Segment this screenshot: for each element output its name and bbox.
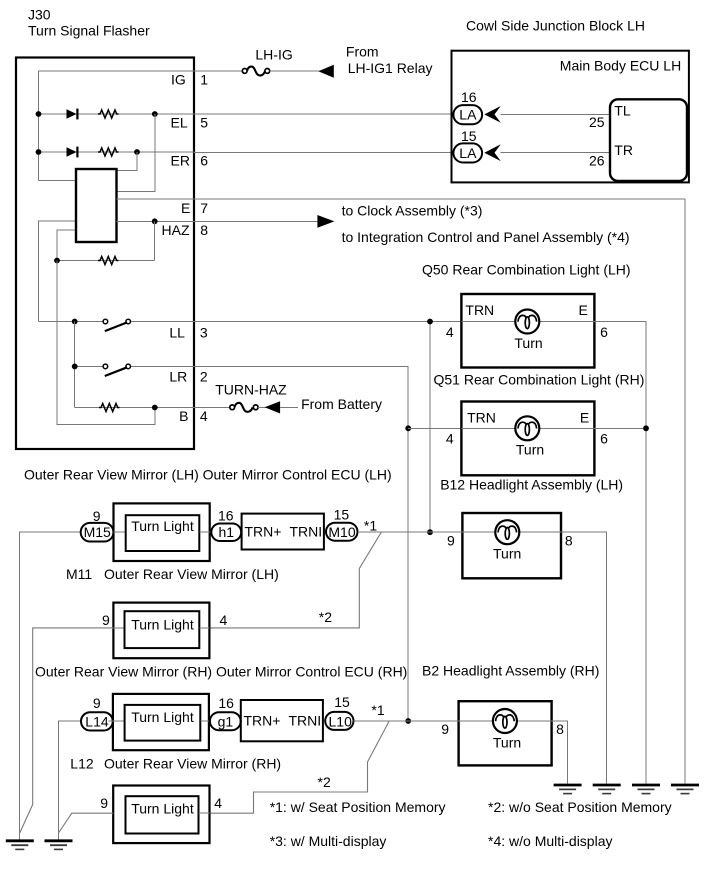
svg-text:6: 6: [600, 324, 608, 340]
svg-text:From Battery: From Battery: [301, 396, 382, 412]
node HAZ: [152, 218, 158, 224]
ground G6: [671, 785, 699, 794]
node EL-right: [152, 111, 158, 117]
connector arrow 16: [484, 106, 501, 123]
svg-text:LH-IG: LH-IG: [255, 46, 292, 62]
svg-text:to Integration Control and Pan: to Integration Control and Panel Assembl…: [342, 229, 630, 245]
node bus2 bottom: [427, 529, 433, 535]
svg-text:From: From: [346, 44, 379, 60]
connector oval L14: [81, 712, 113, 730]
wire Q51 internal: [461, 427, 594, 429]
resistor R2: [98, 148, 119, 156]
wire LR row right part: [131, 365, 195, 367]
svg-text:8: 8: [200, 222, 208, 238]
wire diagonal *1 to *2 bottom: [210, 721, 389, 813]
wire E row: [117, 199, 686, 784]
svg-text:*2: *2: [319, 609, 332, 625]
wire LR external bus1: [194, 366, 408, 721]
wire HAZ to resistor: [154, 221, 156, 260]
component box Outer Rear View Mirror RH: [113, 603, 209, 659]
SECTION: notes: [270, 799, 672, 849]
wire HAZ row: [117, 220, 195, 222]
component box J30 Turn Signal Flasher: [16, 58, 194, 450]
resistor R1: [98, 110, 119, 118]
svg-text:*2: *2: [318, 774, 331, 790]
svg-text:Main Body ECU LH: Main Body ECU LH: [560, 57, 681, 73]
svg-text:Turn: Turn: [493, 546, 521, 562]
svg-text:8: 8: [556, 721, 564, 737]
svg-text:2: 2: [200, 368, 208, 384]
svg-text:4: 4: [200, 408, 208, 424]
svg-text:LR: LR: [169, 368, 187, 384]
lamp B12 Turn: [495, 520, 519, 544]
svg-text:LL: LL: [169, 325, 185, 341]
wire RH mirror 9 to ground1: [20, 628, 114, 833]
wire ER row: [39, 151, 195, 153]
wire ER to IC: [117, 152, 138, 171]
svg-text:*4: w/o Multi-display: *4: w/o Multi-display: [488, 833, 613, 849]
svg-text:Outer Rear View Mirror (RH) Ou: Outer Rear View Mirror (RH) Outer Mirror…: [35, 664, 407, 680]
arrow to clock/integration: [317, 215, 334, 228]
wire M15 to turn light: [114, 531, 126, 533]
node resistor-left: [54, 258, 60, 264]
wire IC left pin1: [39, 180, 77, 182]
ground G4: [593, 785, 621, 794]
wire LA16 to ECU: [501, 113, 611, 115]
svg-text:TRN: TRN: [467, 409, 496, 425]
wire IC left pin2 to LL: [39, 221, 77, 321]
node bus1 Q51: [405, 425, 411, 431]
svg-text:Turn Light: Turn Light: [131, 617, 194, 633]
connector arrow 15: [484, 144, 501, 161]
component box Cowl Side Junction Block: [452, 51, 689, 183]
svg-text:TRN+: TRN+: [245, 524, 282, 540]
svg-text:M15: M15: [84, 524, 111, 540]
svg-text:TL: TL: [614, 102, 631, 118]
connector oval h1: [211, 524, 241, 542]
wire IG internal: [39, 71, 195, 181]
node bus1 B2: [405, 718, 411, 724]
svg-text:L14: L14: [85, 713, 109, 729]
component box TRN+ TRNI L12: [241, 700, 323, 741]
svg-text:Outer Rear View Mirror (LH): Outer Rear View Mirror (LH): [104, 566, 279, 582]
svg-text:B2 Headlight Assembly (RH): B2 Headlight Assembly (RH): [422, 663, 599, 679]
node LL: [72, 319, 78, 325]
svg-text:9: 9: [93, 508, 101, 524]
svg-text:Turn: Turn: [493, 734, 521, 750]
svg-text:Cowl Side Junction Block LH: Cowl Side Junction Block LH: [466, 17, 645, 33]
svg-text:Turn Light: Turn Light: [131, 709, 194, 725]
diode D2: [67, 147, 78, 158]
svg-text:*1: w/ Seat Position Memory: *1: w/ Seat Position Memory: [270, 799, 446, 815]
wire M10 to B12: [358, 531, 463, 533]
arrow from LH-IG1 relay: [318, 65, 334, 78]
svg-text:Turn: Turn: [514, 335, 542, 351]
svg-text:J30: J30: [28, 6, 51, 22]
svg-text:5: 5: [200, 115, 208, 131]
svg-text:g1: g1: [218, 713, 234, 729]
component box Turn Light L12: [125, 705, 201, 741]
wire M15 to ground1: [20, 532, 81, 839]
component box Turn Light bottom: [126, 796, 199, 833]
svg-text:7: 7: [200, 200, 208, 216]
svg-text:9: 9: [102, 612, 110, 628]
svg-text:4: 4: [214, 795, 222, 811]
svg-text:TRNI: TRNI: [289, 713, 322, 729]
svg-text:16: 16: [461, 89, 477, 105]
wire IC left pin3: [57, 230, 76, 261]
svg-text:25: 25: [589, 114, 605, 130]
wire turn light RH pin4: [199, 627, 209, 629]
wire diagonal *1 to *2 LH: [209, 532, 381, 628]
svg-text:15: 15: [334, 507, 350, 523]
wire EL to IC: [117, 114, 155, 191]
svg-text:E: E: [579, 302, 588, 318]
svg-text:*1: *1: [364, 517, 377, 533]
component box Outer Rear View Mirror L12: [113, 694, 209, 750]
wire B to TURN-HAZ fuse: [194, 406, 230, 408]
SECTION: cowl: [194, 17, 689, 413]
component box Main Body ECU LH: [610, 99, 687, 181]
switch SW1 LL: [103, 319, 130, 331]
node EL-left: [36, 111, 42, 117]
wire Q50 E to busC: [594, 322, 646, 784]
node busC Q51: [643, 425, 649, 431]
component box Turn Light M11: [126, 515, 200, 551]
svg-text:Q50 Rear Combination Light (LH: Q50 Rear Combination Light (LH): [422, 262, 631, 278]
svg-text:9: 9: [100, 795, 108, 811]
node ER-right: [134, 149, 140, 155]
wire bottom mirror 9 to ground2: [59, 813, 114, 833]
component box Q51: [461, 402, 594, 476]
svg-text:Q51 Rear Combination Light (RH: Q51 Rear Combination Light (RH): [434, 372, 645, 388]
wire B2 internal: [459, 720, 552, 722]
wire turn light bottom pin4: [199, 812, 211, 814]
svg-text:TURN-HAZ: TURN-HAZ: [215, 381, 287, 397]
svg-text:8: 8: [565, 532, 573, 548]
svg-text:16: 16: [218, 507, 234, 523]
wire L14 to ground2: [59, 721, 82, 839]
svg-text:IG: IG: [171, 72, 186, 88]
svg-text:TRNI: TRNI: [290, 524, 323, 540]
IC box U1: [76, 169, 117, 242]
wire LL row: [39, 321, 104, 323]
component box Turn Light RH: [125, 611, 200, 648]
svg-text:9: 9: [447, 532, 455, 548]
svg-text:TRN: TRN: [465, 302, 494, 318]
svg-text:*3: w/ Multi-display: *3: w/ Multi-display: [270, 833, 387, 849]
wire fuse to arrow: [270, 70, 320, 72]
wire arrow to label: [280, 406, 298, 408]
wire B loop: [57, 261, 155, 425]
svg-text:*2: w/o Seat Position Memory: *2: w/o Seat Position Memory: [488, 799, 672, 815]
svg-text:15: 15: [461, 128, 477, 144]
ground G3: [554, 785, 582, 794]
component box B12: [462, 513, 561, 578]
switch SW2 LR: [103, 364, 130, 376]
diode D1: [67, 109, 78, 120]
svg-text:Outer Rear View Mirror (RH): Outer Rear View Mirror (RH): [104, 756, 281, 772]
connector oval g1: [210, 712, 241, 730]
wire B2 E to busA: [552, 721, 568, 784]
resistor R3: [98, 257, 119, 265]
component box bottom turn light outer: [113, 786, 209, 844]
svg-text:26: 26: [589, 153, 605, 169]
svg-text:15: 15: [334, 694, 350, 710]
svg-text:M10: M10: [328, 524, 355, 540]
wire LR row: [75, 365, 103, 367]
wire resistor row: [57, 260, 155, 262]
lamp Q51 Turn: [515, 416, 539, 440]
wire fuse to battery arrow: [258, 406, 266, 408]
svg-text:E: E: [181, 200, 190, 216]
wire B12 internal: [462, 531, 561, 533]
wire EL row: [39, 113, 195, 115]
connector oval M15: [81, 523, 114, 542]
connector oval LA 15: [453, 143, 482, 162]
svg-text:TRN+: TRN+: [244, 713, 281, 729]
wire RH mirror internal: [113, 627, 124, 629]
node B: [152, 405, 158, 411]
node bus2 top: [427, 319, 433, 325]
svg-text:M11: M11: [66, 566, 92, 582]
svg-text:4: 4: [446, 324, 454, 340]
wire B12 E to busB: [561, 532, 607, 784]
wire IG to fuse: [194, 70, 242, 72]
arrow from battery: [265, 401, 281, 413]
ground G5: [632, 785, 660, 794]
SECTION: mirrors: [20, 467, 463, 843]
svg-text:TR: TR: [614, 142, 633, 158]
wire B row: [75, 407, 194, 409]
svg-text:LA: LA: [459, 107, 477, 123]
wire Q50 internal: [461, 321, 594, 323]
fuse LH-IG: [242, 67, 269, 76]
wire LL to Q50: [194, 321, 461, 323]
svg-text:E: E: [580, 409, 589, 425]
ground G1: [6, 841, 34, 850]
wire turn light to h1: [199, 531, 212, 533]
wire vertical LL-LR-B: [74, 322, 76, 408]
wire HAZ external: [194, 220, 319, 222]
connector oval M10: [326, 523, 358, 541]
svg-text:L12: L12: [70, 756, 94, 772]
lamp Q50 Turn: [515, 310, 539, 334]
connector oval LA 16: [453, 105, 482, 124]
wire LA15 to ECU: [501, 152, 611, 154]
connector oval L10: [325, 712, 353, 730]
svg-text:16: 16: [218, 695, 234, 711]
svg-text:LA: LA: [459, 145, 477, 161]
svg-text:Turn: Turn: [516, 442, 544, 458]
svg-text:6: 6: [200, 153, 208, 169]
svg-text:6: 6: [600, 431, 608, 447]
wire turn light to g1: [200, 720, 209, 722]
ground G2: [45, 841, 73, 850]
SECTION: grounds: [6, 785, 699, 849]
wire Q51 E to busC: [594, 427, 646, 429]
node LR: [72, 364, 78, 370]
svg-text:to Clock Assembly (*3): to Clock Assembly (*3): [342, 203, 483, 219]
wire L14 to turn light: [109, 720, 125, 722]
svg-text:4: 4: [446, 431, 454, 447]
wire L10 to B2: [354, 720, 459, 722]
svg-text:4: 4: [220, 612, 228, 628]
node ER-left: [36, 149, 42, 155]
component box TRN+ TRNI LH: [242, 514, 324, 550]
svg-text:L10: L10: [329, 713, 353, 729]
svg-text:Outer Rear View Mirror (LH) Ou: Outer Rear View Mirror (LH) Outer Mirror…: [24, 467, 392, 483]
svg-text:9: 9: [441, 721, 449, 737]
svg-text:3: 3: [200, 325, 208, 341]
fuse TURN-HAZ: [230, 403, 258, 412]
wire ER to cowl: [194, 151, 454, 153]
svg-text:ER: ER: [171, 153, 190, 169]
svg-text:h1: h1: [219, 524, 235, 540]
svg-text:EL: EL: [171, 115, 188, 131]
svg-text:HAZ: HAZ: [162, 222, 190, 238]
resistor R4: [99, 404, 120, 412]
wire bus1 to Q51 TRN: [408, 427, 461, 429]
component box B2: [459, 701, 552, 765]
component box Q50: [461, 294, 594, 368]
wire LL row right part: [131, 321, 195, 323]
lamp B2 Turn: [493, 709, 517, 733]
svg-text:B: B: [179, 408, 188, 424]
svg-text:Turn Light: Turn Light: [131, 801, 194, 817]
svg-text:Turn Signal Flasher: Turn Signal Flasher: [28, 23, 150, 39]
svg-text:LH-IG1 Relay: LH-IG1 Relay: [348, 60, 433, 76]
svg-text:9: 9: [93, 695, 101, 711]
svg-text:B12 Headlight Assembly (LH): B12 Headlight Assembly (LH): [440, 477, 623, 493]
svg-text:1: 1: [200, 72, 208, 88]
wire EL to cowl: [194, 113, 454, 115]
svg-text:*1: *1: [371, 702, 384, 718]
wire bus2 LL to B12: [429, 322, 431, 533]
component box Outer Rear View Mirror LH: [114, 503, 210, 561]
svg-text:Turn Light: Turn Light: [131, 518, 194, 534]
